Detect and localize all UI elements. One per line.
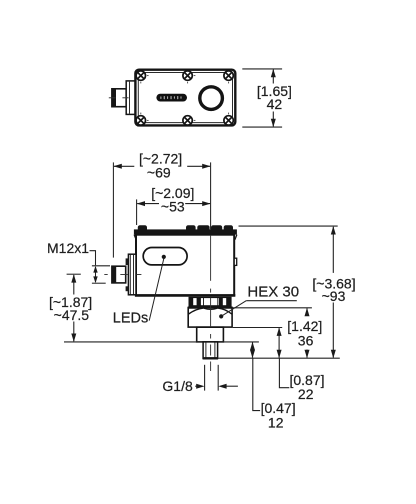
- dimension text [0.47]: [261, 400, 296, 416]
- G1/8 right arrow: [218, 384, 238, 389]
- M12 dimension arrows: [93, 266, 97, 283]
- svg-text:~47.5: ~47.5: [54, 307, 90, 323]
- bottom reference line y=358: [218, 357, 340, 359]
- dimension [1.65]/42 extension line top: [242, 68, 282, 70]
- dimension text [~2.72]: [139, 151, 182, 167]
- svg-text:[1.42]: [1.42]: [287, 318, 322, 334]
- pressure port circle: [200, 87, 223, 110]
- dimension [1.42]/36 line and arrows: [305, 308, 310, 358]
- dimension [0.47]/12 line, arrows and leader: [250, 342, 260, 411]
- G1/8 right extension line: [217, 365, 219, 391]
- dimension [~3.68]/~93 line and arrows: [331, 226, 336, 358]
- G1/8 label: [162, 378, 193, 394]
- cap tab 4: [212, 226, 222, 230]
- dimension [1.42]/36 top extension line (hex top): [233, 307, 312, 309]
- cap screw tab 5: [224, 226, 232, 230]
- cap screw tab 2: [187, 226, 195, 230]
- front connector centerline: [104, 274, 141, 276]
- hex nut HEX30: [188, 308, 232, 328]
- screw A1 top-left: [136, 71, 149, 84]
- dimension text ~53: [161, 199, 185, 215]
- LED leader line: [149, 259, 164, 321]
- dimension text [1.42]: [287, 318, 322, 334]
- svg-text:36: 36: [298, 333, 314, 349]
- hex leader line: [222, 301, 246, 316]
- dimension [1.65]/42 line and arrows: [271, 69, 276, 127]
- dimension text [~3.68]: [312, 276, 355, 292]
- HEX 30 label underline: [246, 300, 297, 302]
- dimension text ~47.5: [54, 307, 90, 323]
- screw A5 bottom-mid: [183, 116, 195, 125]
- dimension [0.87]/22 top extension line (hex bottom): [233, 327, 282, 329]
- flange bump upper: [126, 258, 129, 265]
- dimension text 42: [267, 96, 283, 112]
- LEDs label: [113, 311, 148, 327]
- svg-text:LEDs: LEDs: [113, 311, 148, 327]
- dimension [~3.68]/~93 top extension line: [239, 225, 338, 227]
- dimension [~2.72]/~69 left extension line: [112, 162, 114, 257]
- LED leader dot: [162, 255, 166, 259]
- dimension text [~1.87]: [49, 294, 92, 310]
- dimension text ~69: [147, 164, 171, 180]
- M12 bottom extension line: [92, 282, 106, 284]
- cap (lid) bar: [134, 229, 237, 239]
- seating surface line y=342: [64, 341, 259, 343]
- port vertical centerline: [210, 236, 212, 371]
- dimension text 22: [298, 386, 314, 402]
- screw A2 top-mid: [183, 71, 195, 84]
- dimension [1.65]/42 extension line bottom: [242, 126, 282, 128]
- dimension text ~93: [322, 288, 346, 304]
- screw A3 top-right: [224, 71, 233, 84]
- M12x1 leader hook: [90, 251, 96, 266]
- threaded stud G1/8: [203, 342, 219, 358]
- top view connector plug body: [112, 89, 126, 107]
- dimension text 12: [268, 415, 284, 431]
- dimension [~1.87]/~47.5 top extension line: [67, 273, 81, 275]
- dimension [~1.87]/~47.5 line and arrows: [71, 274, 76, 342]
- front body housing: [135, 235, 235, 296]
- svg-text:G1/8: G1/8: [162, 378, 193, 394]
- M12 top extension line: [92, 265, 110, 267]
- svg-text:~53: ~53: [161, 199, 185, 215]
- front connector plug coupling band: [112, 266, 116, 283]
- dimension text [~2.09]: [151, 185, 194, 201]
- dimension [~2.09]/~53 line and arrows: [137, 201, 211, 206]
- screw A6 bottom-right: [224, 113, 233, 126]
- cylinder below hex: [197, 327, 224, 342]
- svg-text:42: 42: [267, 96, 283, 112]
- top view connector flange: [126, 81, 135, 115]
- locking collar with slots: [189, 297, 231, 306]
- top view cover inner line: [138, 73, 232, 123]
- top view housing body: [135, 70, 235, 126]
- G1/8 left arrow: [195, 384, 204, 389]
- svg-text:~93: ~93: [322, 288, 346, 304]
- HEX 30 label: [247, 284, 299, 301]
- cap tab 3: [198, 226, 209, 230]
- svg-text:12: 12: [268, 415, 284, 431]
- cap screw tab 1: [138, 226, 146, 230]
- front connector flange: [128, 254, 136, 295]
- right side clip bump: [234, 258, 237, 265]
- M12x1 label: [47, 240, 89, 256]
- label plate (logo stadium): [156, 94, 187, 102]
- shared right extension line (port axis): [210, 162, 212, 229]
- top view connector centerline: [109, 97, 142, 99]
- screw A4 bottom-left: [136, 113, 149, 126]
- front connector plug body: [112, 266, 126, 283]
- LED window: [143, 248, 187, 265]
- dimension [~2.72]/~69 line and arrows: [113, 164, 210, 169]
- dimension text [0.87]: [289, 372, 324, 388]
- svg-text:~69: ~69: [147, 164, 171, 180]
- dimension [0.87]/22 line, arrows and leader: [277, 328, 290, 388]
- dimension [~2.09]/~53 left extension line: [136, 199, 138, 225]
- G1/8 left extension line: [204, 365, 206, 391]
- top view connector plug coupling ring (dark band): [111, 88, 116, 107]
- flange bump lower: [126, 286, 129, 291]
- svg-text:HEX 30: HEX 30: [247, 284, 299, 301]
- dimension text [1.65]: [257, 83, 292, 99]
- svg-text:22: 22: [298, 386, 314, 402]
- svg-text:M12x1: M12x1: [47, 240, 89, 256]
- dimension text 36: [298, 333, 314, 349]
- hex leader dot: [219, 314, 223, 318]
